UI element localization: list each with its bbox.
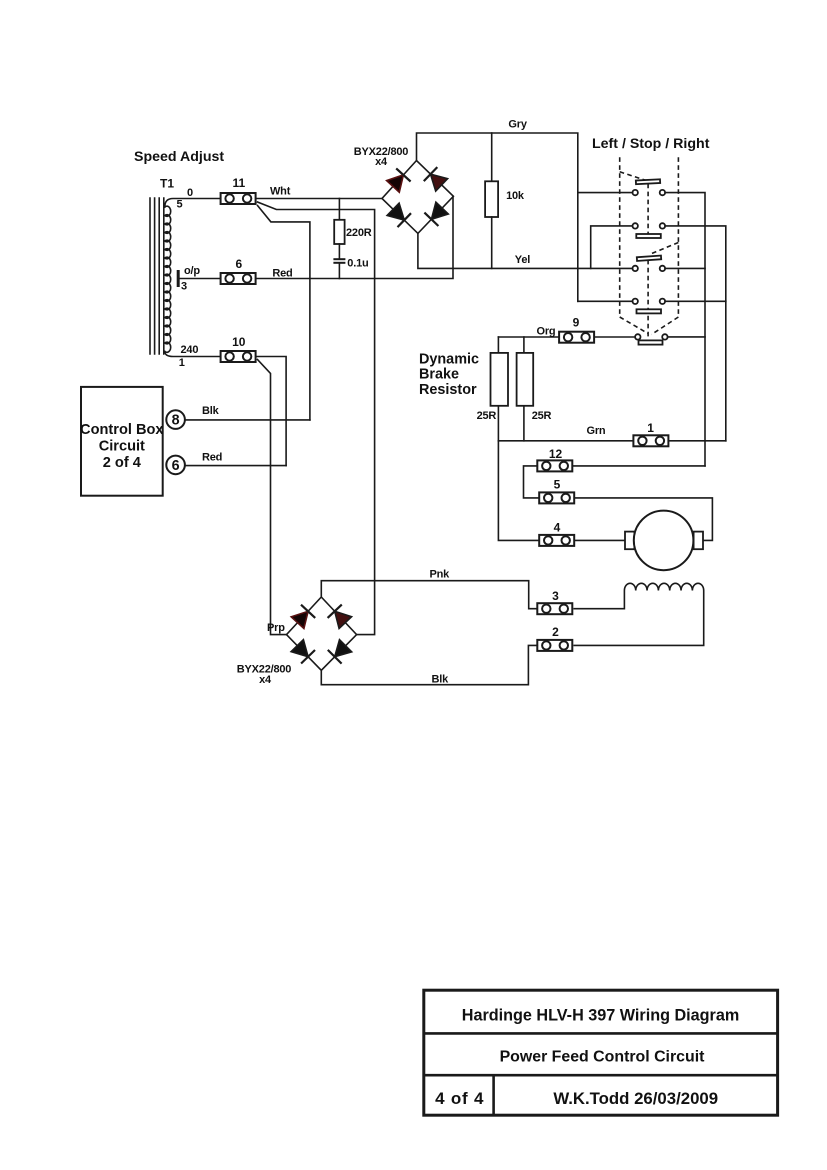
bridge rectifier lower diamond xyxy=(287,597,357,670)
wire 10k top xyxy=(491,133,493,181)
title block divider 2 xyxy=(424,1074,778,1077)
switch dashed actuator top diagonal xyxy=(620,172,648,181)
resistor 10k xyxy=(485,181,498,217)
switch dashed guide right xyxy=(677,157,679,317)
switch contact row3 right xyxy=(660,266,665,271)
terminal block 12 xyxy=(537,460,572,471)
wire brake resistor 1 top xyxy=(497,337,499,353)
svg-text:3: 3 xyxy=(181,281,187,293)
terminal block 11 xyxy=(221,193,256,204)
motor right brush xyxy=(694,532,703,550)
switch contact row1 left xyxy=(633,190,638,195)
control box terminal 8 xyxy=(166,410,185,429)
svg-text:Power Feed Control Circuit: Power Feed Control Circuit xyxy=(500,1049,706,1066)
diode D2 upper top-right xyxy=(424,167,448,191)
svg-text:5: 5 xyxy=(554,478,561,492)
transformer T1 winding xyxy=(165,199,221,208)
wire Org to block 9 xyxy=(498,336,559,338)
diode D3 upper bottom-left xyxy=(387,203,411,227)
wire Pnk bridge top to block 3 xyxy=(321,581,537,609)
switch dashed guide right diagonal xyxy=(652,317,679,335)
svg-text:240: 240 xyxy=(181,344,199,356)
switch bar 2 xyxy=(636,234,661,238)
wire block11 to lower bridge right xyxy=(258,202,375,635)
svg-text:T1: T1 xyxy=(160,176,174,190)
resistor 220R branch wire xyxy=(338,199,340,220)
svg-text:Circuit: Circuit xyxy=(99,439,145,455)
inductor coil block3 to block2 xyxy=(574,583,704,645)
motor body xyxy=(634,511,694,571)
svg-text:8: 8 xyxy=(172,413,180,429)
wire block5 right to motor right xyxy=(576,498,713,541)
wire tap to block 6 xyxy=(180,278,221,280)
switch dashed actuator bar3 diagonal xyxy=(652,243,678,254)
svg-text:0.1u: 0.1u xyxy=(347,258,368,270)
wire cap to Red wire xyxy=(338,263,340,279)
svg-text:12: 12 xyxy=(549,447,563,461)
svg-text:Resistor: Resistor xyxy=(419,382,477,398)
diode D8 lower bottom-right xyxy=(328,640,352,664)
switch bar 4 xyxy=(637,309,662,313)
resistor 220R xyxy=(334,220,344,244)
switch contact row2 right xyxy=(660,223,665,228)
wire brake resistor 2 bottom xyxy=(523,406,525,441)
bridge rectifier upper diamond xyxy=(382,161,453,234)
svg-text:Control Box: Control Box xyxy=(80,422,164,438)
terminal block 2 xyxy=(537,640,572,651)
wire Red block6 to bridge right vertex xyxy=(257,196,453,278)
svg-text:9: 9 xyxy=(573,316,580,330)
terminal block 1 xyxy=(633,435,668,446)
transformer T1 core xyxy=(150,198,164,354)
switch contact row1 right xyxy=(660,190,665,195)
wire 220R to cap xyxy=(338,244,340,259)
svg-text:Hardinge HLV-H 397 Wiring Diag: Hardinge HLV-H 397 Wiring Diagram xyxy=(462,1007,740,1025)
switch contact row3 left xyxy=(633,266,638,271)
svg-text:2 of 4: 2 of 4 xyxy=(103,455,142,471)
switch contact row5 left xyxy=(635,334,640,339)
wire brake junction down to block 4 xyxy=(498,441,539,541)
svg-text:Prp: Prp xyxy=(267,622,285,634)
svg-text:4: 4 xyxy=(554,521,561,535)
wire row2 left bracket to Yel xyxy=(591,226,633,269)
wire brake resistor 1 bottom xyxy=(497,406,499,441)
wire block12 right to bus A xyxy=(574,465,705,467)
resistor 25R left xyxy=(491,353,509,406)
svg-text:220R: 220R xyxy=(346,227,372,239)
svg-text:Blk: Blk xyxy=(432,673,450,685)
svg-text:Wht: Wht xyxy=(270,186,291,198)
terminal block 4 xyxy=(539,535,574,546)
wire Red from terminal 6 xyxy=(186,465,286,467)
svg-text:10: 10 xyxy=(232,335,246,349)
wire row2 right to bus B xyxy=(665,226,726,441)
diode D7 lower bottom-left xyxy=(291,640,315,664)
svg-text:Speed Adjust: Speed Adjust xyxy=(134,149,224,165)
switch contact row4 left xyxy=(633,299,638,304)
svg-text:6: 6 xyxy=(235,257,242,271)
svg-text:1: 1 xyxy=(647,421,654,435)
svg-text:4 of 4: 4 of 4 xyxy=(435,1089,484,1108)
svg-text:x4: x4 xyxy=(259,674,272,686)
diode D6 lower top-right xyxy=(328,605,352,629)
svg-text:2: 2 xyxy=(552,625,559,639)
wire row1 left xyxy=(578,192,633,194)
svg-text:Pnk: Pnk xyxy=(430,569,451,581)
wire block4 right to motor left xyxy=(576,539,625,541)
svg-text:6: 6 xyxy=(172,458,180,474)
wire brake resistor 2 top xyxy=(523,337,525,353)
wire Wht block11 to bridge xyxy=(257,198,382,200)
capacitor C 0.1u xyxy=(333,259,345,263)
svg-text:Blk: Blk xyxy=(202,405,220,417)
svg-text:Left / Stop / Right: Left / Stop / Right xyxy=(592,136,710,152)
wire row1 right to bus A xyxy=(665,193,705,466)
wire block10 to lower bridge left xyxy=(258,360,287,635)
svg-text:Dynamic: Dynamic xyxy=(419,352,479,368)
title block divider 1 xyxy=(424,1032,778,1035)
resistor 25R right xyxy=(517,353,534,406)
control box rectangle xyxy=(81,387,163,496)
wire row5 left to block 9 xyxy=(596,336,636,338)
svg-text:Yel: Yel xyxy=(515,254,530,266)
svg-text:0: 0 xyxy=(187,187,193,199)
switch contact row5 right xyxy=(662,334,667,339)
wire block12 left to block5 left xyxy=(524,466,540,498)
diode D4 upper bottom-right xyxy=(424,202,448,226)
svg-text:x4: x4 xyxy=(375,156,388,168)
svg-text:Org: Org xyxy=(537,326,556,338)
svg-text:11: 11 xyxy=(232,176,245,190)
svg-text:W.K.Todd 26/03/2009: W.K.Todd 26/03/2009 xyxy=(553,1089,718,1108)
svg-text:5: 5 xyxy=(177,199,183,211)
switch contact row2 left xyxy=(633,223,638,228)
terminal block 10 xyxy=(221,351,256,362)
svg-text:10k: 10k xyxy=(506,190,525,202)
terminal block 6 xyxy=(221,273,256,284)
svg-text:Brake: Brake xyxy=(419,367,459,383)
switch contact row4 right xyxy=(660,299,665,304)
switch dashed actuator bar3-bar5 xyxy=(647,260,649,341)
svg-text:Gry: Gry xyxy=(508,119,527,131)
wire block10 to control box 6 xyxy=(257,357,286,466)
terminal block 3 xyxy=(537,603,572,614)
control box terminal 6 xyxy=(166,456,185,475)
terminal block 5 xyxy=(539,492,574,503)
title block outer frame xyxy=(424,990,778,1115)
wire Grn to block 1 xyxy=(498,440,633,442)
transformer tap bar xyxy=(177,270,180,287)
svg-text:25R: 25R xyxy=(532,410,552,422)
switch dashed actuator bar1-bar2 xyxy=(647,184,649,234)
svg-text:Grn: Grn xyxy=(587,425,606,437)
wire block11 to control box 8 xyxy=(258,206,310,420)
wire Blk from terminal 8 xyxy=(186,419,310,421)
switch bar 5 xyxy=(639,340,663,344)
terminal block 9 xyxy=(559,332,594,343)
switch dashed guide left diagonal xyxy=(620,317,648,334)
diode D5 lower top-left xyxy=(291,605,315,629)
svg-text:1: 1 xyxy=(179,357,185,369)
wire Gry bridge top to switch xyxy=(417,133,578,301)
wire row4 left xyxy=(578,300,633,302)
wire 10k bottom xyxy=(491,217,493,268)
wire Yel bridge bottom to switch row3 xyxy=(418,233,633,268)
svg-text:o/p: o/p xyxy=(184,265,200,277)
wire row3 right to bus A xyxy=(665,267,705,269)
svg-text:Red: Red xyxy=(202,452,222,464)
title block vertical divider xyxy=(492,1075,495,1115)
wire block1 right to bus B xyxy=(670,440,726,442)
switch bar 1 xyxy=(636,179,660,184)
motor left brush xyxy=(625,532,634,550)
wire Blk block2 to bridge bottom xyxy=(321,645,537,684)
switch dashed guide left xyxy=(619,157,621,317)
switch bar 3 xyxy=(637,256,661,261)
diode D1 upper top-left xyxy=(387,168,411,192)
svg-text:3: 3 xyxy=(552,589,559,603)
wire row5 right to bus A xyxy=(668,336,705,338)
wire row4 right to bus B xyxy=(665,300,726,302)
svg-text:25R: 25R xyxy=(477,410,497,422)
